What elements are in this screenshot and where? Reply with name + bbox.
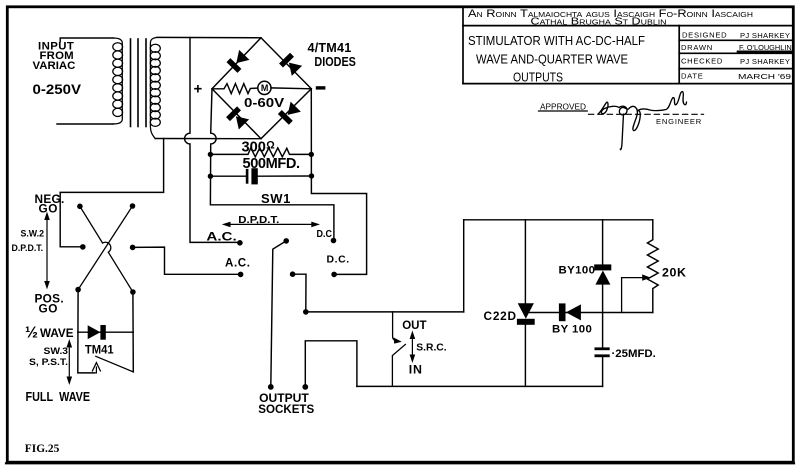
- svg-text:CHECKED: CHECKED: [681, 57, 723, 66]
- svg-text:DIODES: DIODES: [314, 55, 356, 69]
- label minus: [316, 86, 326, 89]
- svg-text:SOCKETS: SOCKETS: [258, 402, 314, 416]
- svg-text:0-250V: 0-250V: [33, 82, 82, 97]
- diode D5 TM41: [78, 331, 134, 333]
- capacitor C1 500MFD rail: [210, 175, 246, 177]
- wire SW2 BR down: [132, 292, 134, 372]
- diode D2 upper-right: [279, 53, 302, 76]
- wire right block left vertical: [463, 220, 465, 312]
- wire SW2 cross to A.C. bottom: [133, 247, 241, 274]
- potentiometer wiper: [622, 278, 643, 313]
- svg-text:OUTPUTS: OUTPUTS: [513, 69, 563, 84]
- svg-text:WAVE AND-QUARTER WAVE: WAVE AND-QUARTER WAVE: [476, 51, 628, 66]
- svg-text:A.C.: A.C.: [206, 230, 236, 243]
- switch SRC fixed wire and arrow: [393, 312, 396, 341]
- svg-text:0-60V: 0-60V: [244, 96, 285, 110]
- diode D1 upper-left: [226, 49, 249, 72]
- output socket dot 2: [302, 384, 308, 390]
- switch SW2 diagonal BL-TR: [78, 206, 132, 290]
- svg-text:4/TM41: 4/TM41: [308, 41, 352, 55]
- arrow SW2 travel: [46, 217, 48, 285]
- signature: [598, 92, 687, 150]
- node dots on rails: [208, 152, 314, 179]
- wire + rail down with hop: [210, 89, 334, 238]
- svg-text:STIMULATOR WITH AC-DC-HALF: STIMULATOR WITH AC-DC-HALF: [468, 33, 645, 48]
- wire meter to - vertex: [271, 87, 311, 90]
- svg-text:OUT: OUT: [402, 318, 427, 332]
- wire input bottom: [57, 123, 113, 125]
- svg-text:FIG.25: FIG.25: [25, 443, 60, 455]
- diode D6 BY100 horizontal: [559, 303, 566, 321]
- switch SW2 contact dots: [75, 203, 135, 295]
- svg-text:APPROVED: APPROVED: [540, 103, 586, 112]
- potentiometer R2 20K: [647, 220, 658, 313]
- svg-text:SW1: SW1: [261, 191, 291, 206]
- switch SW1 pole 1 lever and wire to socket: [271, 241, 286, 387]
- wire pole2 to right block: [306, 311, 464, 313]
- svg-text:DESIGNED: DESIGNED: [682, 31, 727, 40]
- svg-text:S.R.C.: S.R.C.: [416, 342, 446, 353]
- svg-text:M: M: [261, 83, 269, 93]
- transformer T1 primary: [113, 38, 123, 124]
- wire input top: [60, 38, 113, 42]
- wire - rail down: [311, 89, 366, 275]
- arrow SW3 travel: [68, 344, 70, 380]
- wire top rail: [464, 219, 653, 221]
- svg-text:BY100: BY100: [559, 265, 596, 277]
- title block box: [463, 7, 793, 84]
- switch SW3 fixed contact arrow: [95, 367, 97, 373]
- wire SW2 feed vertical: [60, 139, 163, 247]
- capacitor C2 .25MFD: [595, 347, 610, 350]
- title header text: [468, 8, 792, 84]
- svg-text:S, P.S.T.: S, P.S.T.: [29, 357, 68, 368]
- svg-text:A.C.: A.C.: [225, 256, 251, 269]
- diode D3 lower-left: [226, 106, 249, 129]
- switch SW1 contact dots: [237, 238, 337, 315]
- svg-text:D.C: D.C: [317, 229, 333, 240]
- svg-text:PJ SHARKEY: PJ SHARKEY: [740, 57, 790, 66]
- approved / signature: [540, 103, 702, 127]
- wire gate line: [529, 312, 559, 314]
- svg-text:VARIAC: VARIAC: [33, 60, 76, 72]
- switch SW1 pole 2 wire: [293, 274, 306, 312]
- svg-text:S.W.2: S.W.2: [21, 229, 45, 239]
- svg-text:300: 300: [242, 139, 266, 155]
- switch SW3 lever: [96, 356, 134, 372]
- switch SW1 span arrow: [227, 223, 315, 225]
- svg-text:IN: IN: [409, 363, 423, 377]
- svg-text:ENGINEER: ENGINEER: [656, 117, 702, 126]
- resistor R1 300 ohm: [210, 148, 311, 157]
- svg-text:·25MFD.: ·25MFD.: [612, 348, 656, 360]
- svg-text:C22D: C22D: [484, 309, 517, 323]
- svg-text:½: ½: [25, 324, 38, 341]
- svg-text:BY 100: BY 100: [552, 323, 592, 335]
- bridge rectifier diamond: [212, 38, 311, 139]
- transformer core: [131, 39, 147, 127]
- svg-text:FULL WAVE: FULL WAVE: [26, 390, 91, 404]
- switch SRC lever: [392, 344, 405, 386]
- wire secondary top to bridge: [157, 36, 261, 38]
- meter M branch resistor: [212, 84, 258, 94]
- output socket dot 1: [268, 384, 274, 390]
- arrow SRC travel: [411, 336, 413, 359]
- svg-text:MARCH '69: MARCH '69: [738, 72, 791, 81]
- switch SW2 diagonal TL-BR with hop: [80, 206, 133, 292]
- svg-text:D.C.: D.C.: [327, 254, 350, 265]
- diode D4 lower-right: [278, 101, 301, 124]
- svg-text:TM41: TM41: [85, 342, 114, 356]
- svg-text:DATE: DATE: [681, 72, 704, 81]
- svg-text:+: +: [194, 81, 203, 98]
- svg-text:D.P.D.T.: D.P.D.T.: [12, 243, 44, 253]
- svg-text:GO: GO: [39, 301, 59, 315]
- svg-text:500MFD.: 500MFD.: [243, 156, 301, 172]
- svg-text:DRAWN: DRAWN: [681, 43, 713, 52]
- svg-text:Cathal Brugha St Dublin: Cathal Brugha St Dublin: [531, 17, 667, 28]
- svg-text:SW.3: SW.3: [44, 346, 69, 357]
- transformer T1 secondary: [150, 37, 160, 138]
- input label: [33, 40, 82, 97]
- drawn underline bar: [738, 50, 793, 53]
- diode D7 BY100 vertical: [602, 220, 604, 265]
- wire socket2 loop: [305, 341, 357, 387]
- svg-text:GO: GO: [39, 201, 59, 215]
- wire SW2 BL down to SW3: [78, 290, 95, 373]
- thyristor Q1 C22D: [524, 220, 526, 304]
- wire secondary bottom to bridge bottom vertex: [155, 138, 261, 140]
- svg-text:WAVE: WAVE: [40, 326, 74, 340]
- meter M1: [258, 81, 271, 94]
- node A.C. tap vertical with hop: [185, 38, 237, 243]
- wire bottom rail: [357, 385, 603, 387]
- svg-text:PJ SHARKEY: PJ SHARKEY: [740, 31, 790, 40]
- svg-text:20K: 20K: [662, 265, 687, 279]
- svg-text:Ω: Ω: [266, 139, 275, 151]
